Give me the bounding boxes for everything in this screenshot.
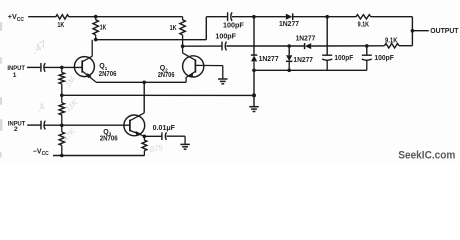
wire Q3 collector riser: [143, 82, 145, 113]
node ground rail at D4: [287, 69, 291, 73]
svg-text:100pF: 100pF: [223, 21, 244, 30]
wire C5 to D3: [226, 45, 304, 47]
svg-text:OUTPUT: OUTPUT: [430, 26, 459, 35]
wire D1 to R8: [293, 16, 356, 18]
svg-text:+VCC: +VCC: [8, 12, 25, 23]
wire rail2 from Q2 collector: [183, 45, 222, 47]
svg-text:2N706: 2N706: [100, 134, 118, 143]
wire node D vertical: [326, 17, 328, 56]
ground emitter bypass: [184, 136, 186, 144]
svg-text:1N277: 1N277: [259, 54, 279, 63]
wire C3 to ground: [167, 135, 186, 137]
wire main ground drop: [253, 70, 255, 106]
node R2 top junction: [94, 15, 98, 19]
svg-text:.4: .4: [35, 101, 47, 113]
resistor R5 bias upper: [61, 67, 63, 72]
resistor R4 1K vertical: [182, 17, 184, 20]
wire Q1 collector bus: [96, 39, 207, 41]
svg-text:1N277: 1N277: [296, 34, 316, 43]
node Q3 base junction: [60, 124, 64, 128]
wire node C vertical: [253, 17, 255, 56]
wire emitter to C3: [144, 135, 162, 137]
wire output stub: [412, 30, 428, 32]
capacitor C6 100pF shunt: [322, 54, 332, 56]
wire C2 to Q3 base: [44, 124, 130, 126]
transistor Q3 2N706: [124, 115, 145, 136]
node -Vcc rail junction: [60, 154, 64, 158]
node D junction: [325, 15, 329, 19]
wire D3 to R9: [311, 45, 384, 47]
capacitor C4 100pF series: [227, 12, 229, 21]
wire detector ground rail: [254, 69, 367, 71]
svg-text:2: 2: [14, 126, 18, 133]
svg-text:2N706: 2N706: [158, 70, 175, 79]
node Q3 emitter junction: [143, 135, 147, 139]
resistor R6 bias lower: [61, 95, 63, 103]
wire emitter bus: [96, 81, 186, 83]
capacitor C3 0.01uF: [161, 132, 163, 140]
wire input 2 lead: [27, 124, 41, 126]
svg-text:1K: 1K: [100, 23, 107, 32]
transistor Q1 2N706: [74, 57, 94, 77]
svg-text:100pF: 100pF: [374, 53, 394, 62]
svg-text:875: 875: [149, 143, 164, 154]
svg-text:.47: .47: [30, 38, 50, 57]
wire bias midpoint to detector ground: [62, 94, 254, 96]
wire -Vcc rail: [53, 155, 145, 157]
node Q2 collector junction: [181, 44, 185, 48]
node emitter bus to Q3 collector: [142, 81, 146, 85]
resistor R2 1K vertical: [95, 17, 97, 20]
resistor R9 9.1K: [384, 44, 399, 48]
svg-text:9.1K: 9.1K: [385, 35, 398, 44]
svg-text:100pF: 100pF: [215, 32, 236, 41]
svg-text:1N277: 1N277: [293, 55, 313, 64]
node bias midpoint: [60, 94, 64, 98]
svg-text:100pF: 100pF: [334, 53, 353, 62]
transistor Q2 2N706: [183, 56, 204, 77]
node Q1 collector junction: [94, 38, 98, 42]
node ground rail at D2: [252, 69, 256, 73]
wire C1 to Q1 base: [44, 66, 82, 68]
svg-text:1K: 1K: [57, 20, 65, 29]
capacitor C5 100pF series: [221, 42, 223, 51]
ground Q2 base: [222, 66, 224, 79]
ground main: [249, 106, 258, 108]
svg-text:0.01μF: 0.01μF: [153, 125, 175, 132]
svg-text:−VCC: −VCC: [33, 148, 49, 157]
svg-text:11K: 11K: [63, 97, 80, 113]
pencil annotations: [30, 38, 164, 154]
diode D2 1N277 shunt cathode-up: [251, 54, 257, 56]
diode D3 1N277 series: [304, 43, 306, 49]
svg-text:1N277: 1N277: [279, 19, 299, 28]
svg-text:9.1K: 9.1K: [358, 20, 370, 29]
resistor R8 9.1K: [356, 15, 371, 19]
svg-text:1K: 1K: [170, 23, 178, 32]
wire C7 vertical: [366, 46, 368, 55]
wire R8 to output corner: [371, 16, 413, 18]
node D4 junction: [287, 44, 291, 48]
wire D4 vertical: [288, 46, 290, 55]
capacitor C1 input 1: [40, 63, 42, 72]
diode D4 1N277 shunt cathode-down: [286, 55, 292, 61]
node C7 junction: [365, 44, 369, 48]
diode D1 1N277 series: [286, 14, 293, 20]
resistor R1 1K horizontal: [56, 15, 69, 19]
resistor R7 bias bottom: [61, 125, 63, 132]
node main ground junction: [252, 93, 256, 97]
wire R9 to output corner: [399, 45, 412, 47]
wire riser to C4: [205, 17, 207, 40]
svg-text:SeekIC.com: SeekIC.com: [398, 149, 455, 161]
wire rail R1 to R4: [69, 16, 183, 18]
scan edge artifacts: [0, 22, 2, 158]
capacitor C2 input 2: [40, 121, 42, 130]
wire input 1 lead: [27, 66, 41, 68]
node Q1 base junction: [60, 66, 64, 70]
svg-text:47K: 47K: [61, 126, 78, 143]
svg-text:2N706: 2N706: [99, 69, 117, 78]
capacitor C7 100pF shunt: [362, 54, 372, 56]
svg-text:1: 1: [13, 72, 17, 79]
node OUTPUT junction: [411, 29, 415, 33]
wire C4 to D1: [232, 16, 286, 18]
wire +Vcc rail: [28, 16, 56, 18]
node C junction: [252, 15, 256, 19]
resistor R10 Q3 emitter: [143, 136, 145, 140]
